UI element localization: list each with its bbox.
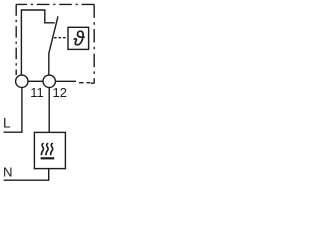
enclosure boundary right edge (dash-dot): [93, 4, 95, 83]
enclosure boundary top edge (dash-dot): [16, 3, 94, 5]
thermostat linkage (dashed): [54, 37, 68, 39]
enclosure boundary bottom edge (dash-dot): [79, 82, 94, 85]
svg-text:N: N: [3, 165, 13, 180]
svg-text:12: 12: [53, 85, 67, 100]
heating element symbol base bar: [41, 157, 55, 159]
wire from terminal 11 down to L: [4, 87, 22, 132]
fixed contact conductor from terminal 11: [21, 10, 54, 75]
svg-text:11: 11: [30, 85, 44, 100]
heating element symbol wavy line 3: [51, 143, 53, 155]
heater box E1: [34, 132, 65, 168]
wire from terminal 12 down to heater: [48, 87, 50, 132]
switch blade (thermal contact): [49, 16, 58, 75]
wire heater to N: [4, 169, 49, 181]
terminal circle 11: [16, 75, 28, 87]
heating element symbol wavy line 2: [46, 143, 48, 155]
svg-text:L: L: [3, 115, 11, 130]
thermostat box U1: [68, 27, 89, 49]
enclosure boundary left edge (dash-dot): [15, 4, 17, 75]
wire between terminals 11 and 12: [28, 80, 43, 82]
svg-text:ϑ: ϑ: [73, 29, 85, 51]
wire from terminal 12 to boundary: [56, 80, 77, 82]
heating element symbol wavy line 1: [41, 143, 43, 155]
terminal circle 12: [43, 75, 55, 87]
